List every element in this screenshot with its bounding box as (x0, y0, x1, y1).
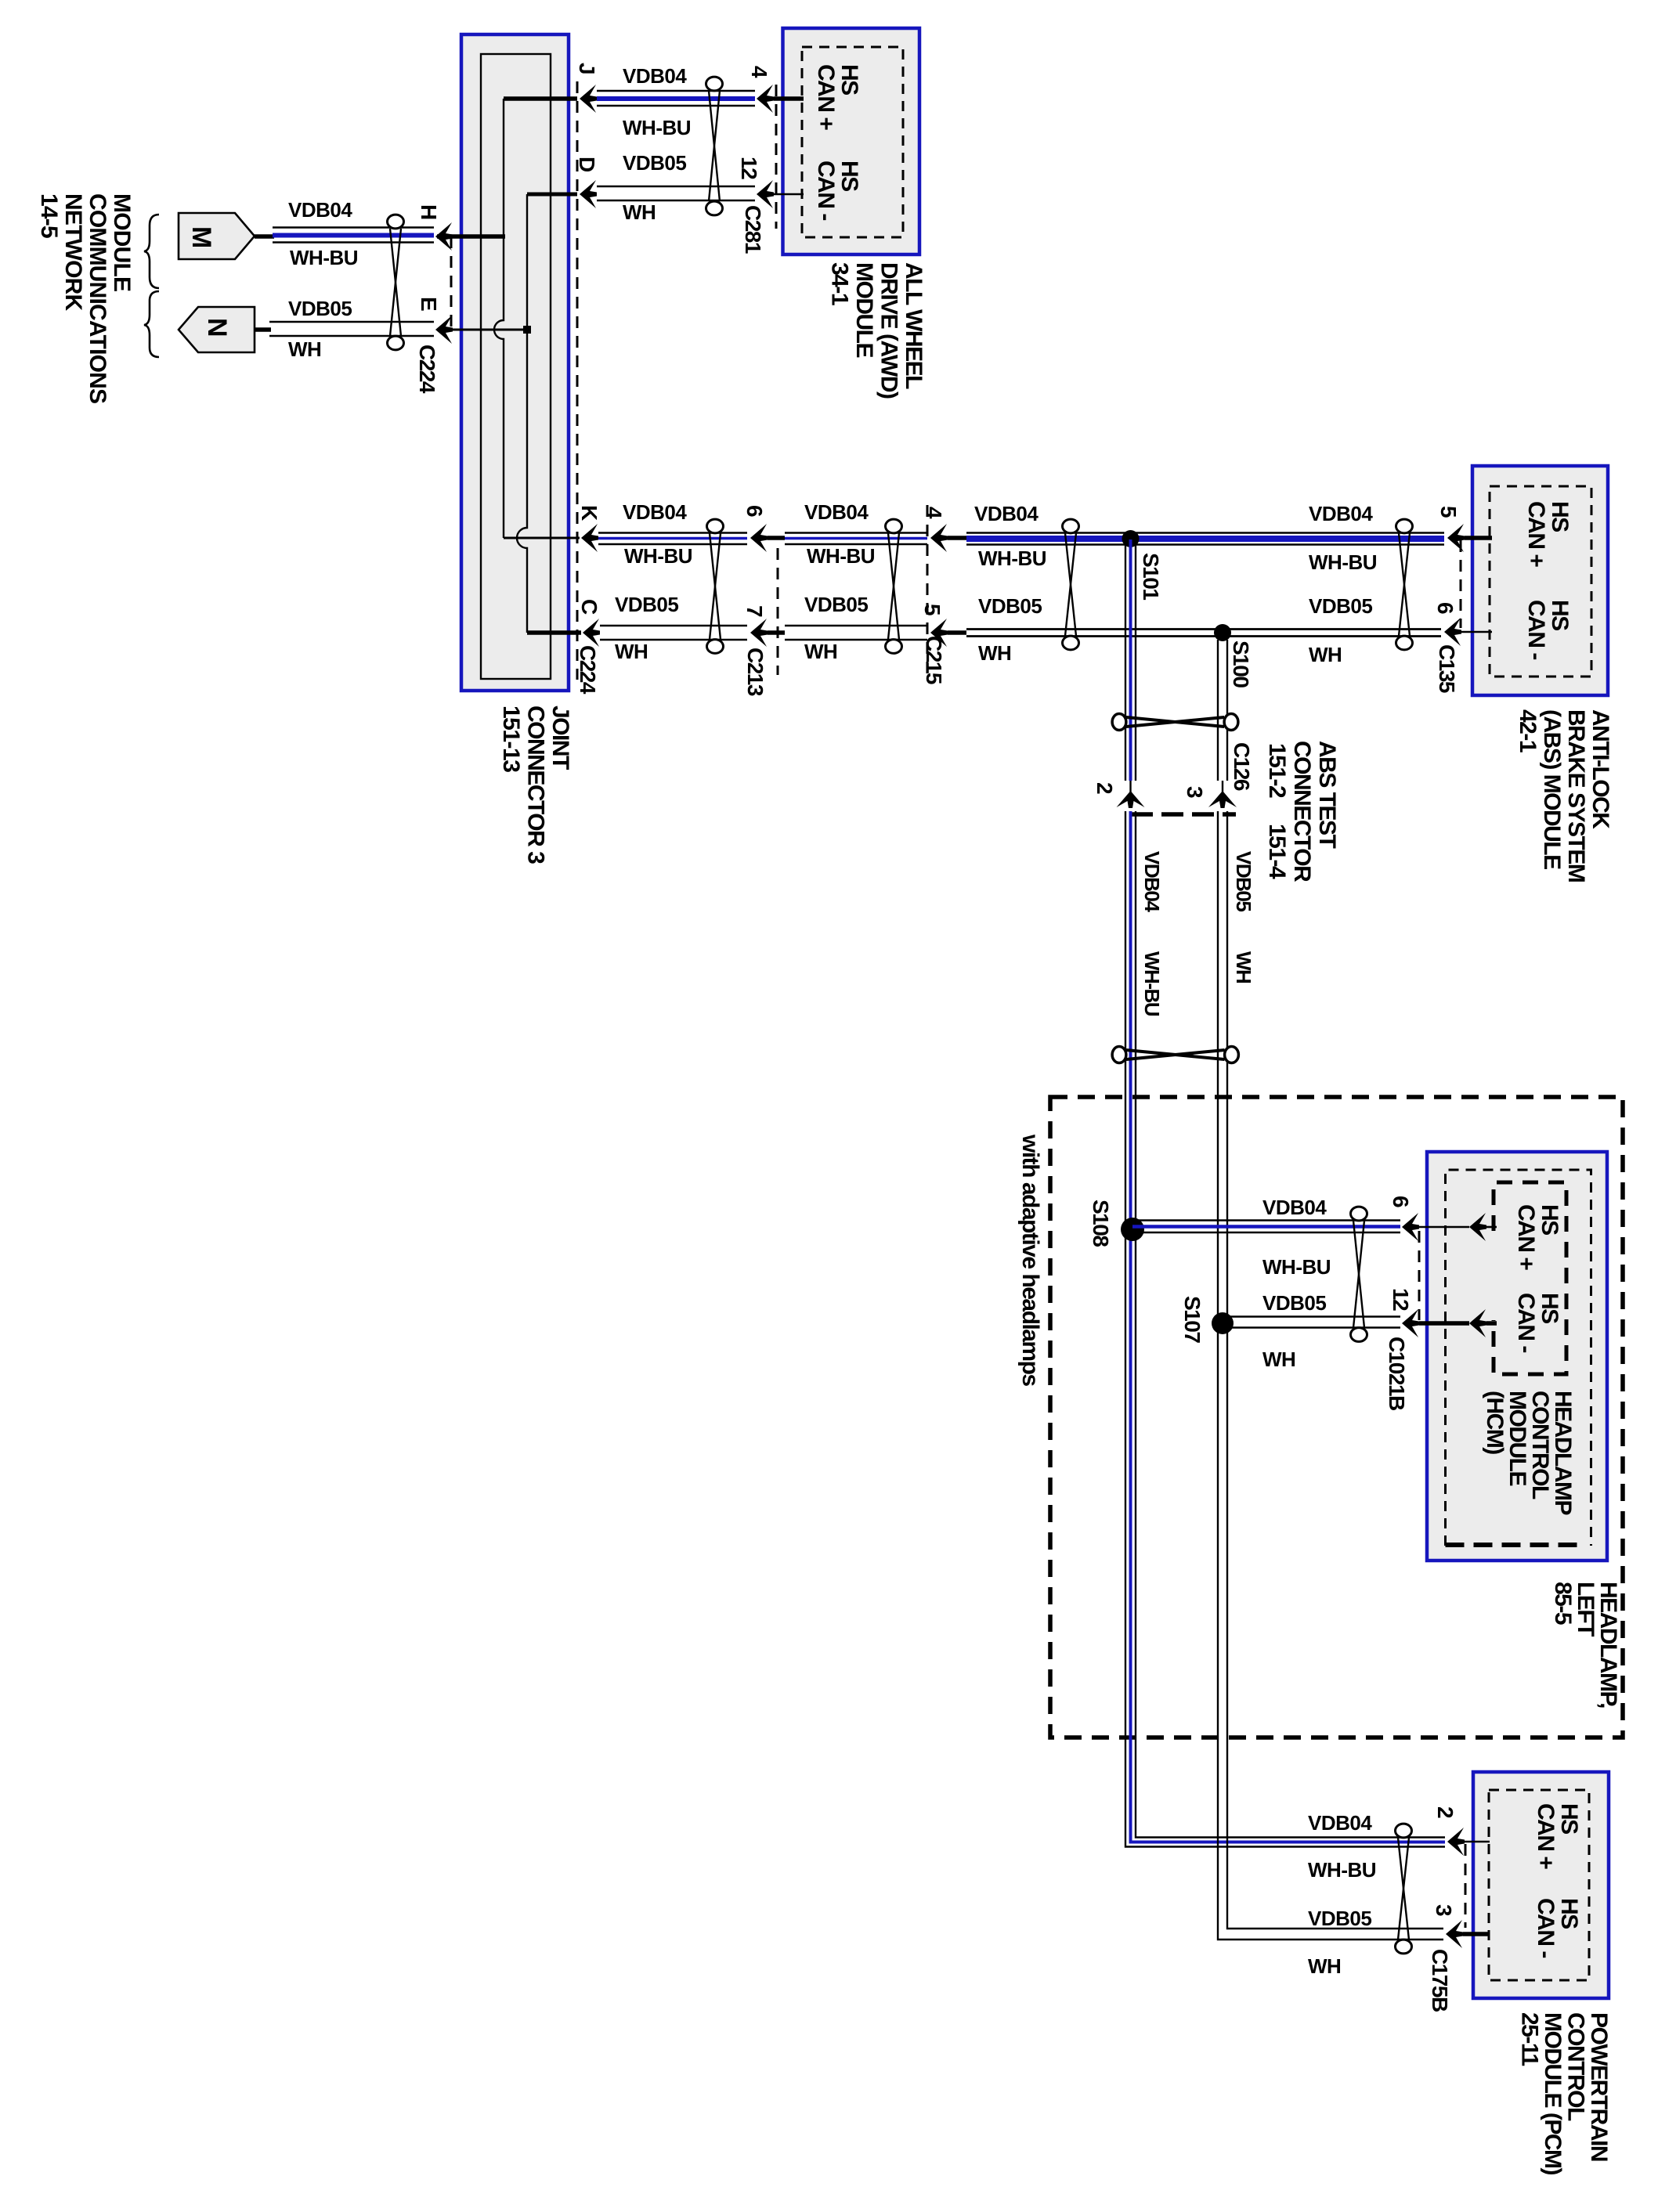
connector C213 boundary (777, 548, 779, 675)
svg-text:CONTROL: CONTROL (1563, 2012, 1589, 2121)
wire label VDB05 (HCM row) (1262, 1291, 1326, 1315)
label HS CAN + (AWD) (813, 64, 862, 130)
svg-text:S107: S107 (1180, 1296, 1205, 1343)
label HS CAN + (ABS) (1523, 501, 1573, 567)
wire VDB05 WH (C to C213) (600, 626, 747, 640)
svg-text:DRIVE (AWD): DRIVE (AWD) (876, 262, 902, 399)
wire VDB04 WH-BU (J to AWD pin4) (597, 91, 755, 106)
wire stub C1021B-12 to module (1419, 1321, 1469, 1326)
wire pin J stub (504, 96, 577, 101)
svg-text:H: H (417, 204, 441, 219)
svg-text:CAN +: CAN + (1523, 501, 1549, 567)
wire VDB05 vertical (S100 down, above C126) (1218, 640, 1227, 781)
wire VDB05 WH (D to AWD pin12) (597, 186, 755, 200)
svg-text:HS: HS (1537, 1204, 1562, 1235)
internal bus VDB05 (joint connector) (517, 194, 527, 633)
wire stub after C215 pin5 (948, 630, 966, 635)
module HEADLAMP CONTROL MODULE box (1427, 1152, 1607, 1561)
wire label VDB05 (D row) (623, 151, 686, 175)
svg-text:VDB05: VDB05 (1309, 594, 1372, 618)
svg-text:HS: HS (836, 64, 862, 95)
PCM module dashed outline (1489, 1790, 1589, 1980)
pin label 6 (C213) (742, 505, 767, 517)
wire stub into ABS pin5 (1465, 536, 1492, 540)
wire label WH-BU (span2) (807, 544, 875, 568)
wire VDB05 vertical (C126 down to PCM corner) (1218, 811, 1443, 1940)
svg-text:34-1: 34-1 (827, 262, 853, 305)
wire label VDB04 (PCM row) (1308, 1811, 1372, 1835)
wire M stub (255, 234, 274, 239)
svg-text:C224: C224 (576, 645, 600, 695)
HCM module dashed outline (1446, 1170, 1591, 1546)
wire label WH (C row) (615, 640, 648, 663)
wire label WH-BU (K row) (624, 544, 692, 568)
svg-text:3: 3 (1432, 1904, 1456, 1916)
label HEADLAMP, LEFT 85-5 (1550, 1582, 1621, 1708)
svg-text:C224: C224 (415, 345, 439, 394)
svg-text:VDB04: VDB04 (1308, 1811, 1372, 1835)
wire stub after C215 pin4 (948, 536, 966, 540)
label HS CAN + (PCM) (1533, 1803, 1582, 1869)
pin K arrow (581, 524, 598, 552)
wire label VDB04 (at ABS) (1309, 502, 1373, 525)
svg-text:BRAKE SYSTEM: BRAKE SYSTEM (1563, 709, 1589, 882)
svg-text:JOINT: JOINT (547, 705, 573, 770)
pin 3 arrow (C126) (1208, 781, 1237, 808)
wire label WH (PCM row) (1308, 1954, 1341, 1978)
connector label C175B (1428, 1949, 1452, 2012)
svg-text:WH: WH (288, 337, 321, 361)
wire label VDB04 (span3) (974, 502, 1039, 525)
wire label VDB05 (at ABS) (1309, 594, 1372, 618)
svg-text:CONNECTOR 3: CONNECTOR 3 (523, 705, 549, 864)
label ABS TEST CONNECTOR 151-2 151-4 (1264, 741, 1340, 882)
pin label 3 (C126) (1183, 786, 1207, 798)
wire pin H stub (437, 234, 505, 239)
wire N stub (255, 327, 271, 332)
svg-text:HS: HS (1547, 600, 1573, 630)
svg-text:6: 6 (1433, 602, 1458, 614)
connector N symbol (179, 307, 255, 352)
svg-text:WH-BU: WH-BU (1309, 550, 1377, 574)
module ANTI-LOCK BRAKE SYSTEM box (1472, 466, 1608, 695)
svg-text:S108: S108 (1089, 1200, 1113, 1247)
pin label K (577, 505, 601, 521)
pin label 12 (AWD) (737, 157, 761, 179)
svg-text:6: 6 (1389, 1196, 1413, 1207)
pin label C (577, 599, 601, 615)
module name ANTI-LOCK BRAKE SYSTEM (ABS) MODULE 42-1 (1515, 709, 1613, 882)
connector M label (186, 226, 216, 247)
wire pin K stub (504, 537, 580, 539)
splice label S101 (1139, 553, 1163, 600)
wire label WH-BU (vertical) (1140, 951, 1164, 1016)
twisted pair symbol (PCM rows) (1396, 1824, 1412, 1954)
svg-text:CAN +: CAN + (1533, 1803, 1559, 1869)
pin label 12 (HCM) (1389, 1288, 1413, 1311)
wire label WH-BU (at ABS) (1309, 550, 1377, 574)
splice S107 (1212, 1312, 1234, 1334)
module ALL WHEEL DRIVE (AWD) box (783, 28, 920, 254)
svg-text:CAN -: CAN - (1533, 1898, 1559, 1958)
splice label S107 (1180, 1296, 1205, 1343)
module arrow pin12 (HCM) (1469, 1309, 1486, 1337)
pin label J (575, 63, 599, 74)
internal bus VDB04 (joint connector) (494, 99, 504, 538)
wire label VDB04 (M row) (288, 198, 352, 222)
pin 5 arrow (C215) (930, 619, 948, 647)
svg-text:C: C (577, 599, 601, 615)
pin 6 arrow (C213) (750, 524, 768, 552)
wire stub into HCM pin12 (1486, 1321, 1497, 1326)
svg-text:VDB05: VDB05 (1232, 851, 1255, 911)
pin D arrow (580, 180, 597, 208)
module name HEADLAMP CONTROL MODULE (HCM) (1482, 1391, 1576, 1514)
svg-text:CONNECTOR: CONNECTOR (1289, 741, 1315, 882)
connector C224 boundary (left) (450, 236, 453, 332)
svg-text:(HCM): (HCM) (1482, 1391, 1508, 1454)
connector C281 boundary (775, 85, 778, 229)
wire label WH (vertical) (1232, 951, 1255, 983)
svg-text:VDB05: VDB05 (804, 593, 868, 616)
wire label WH-BU (HCM row) (1262, 1255, 1331, 1279)
svg-text:MODULE: MODULE (851, 262, 877, 357)
svg-text:COMMUNICATIONS: COMMUNICATIONS (85, 193, 110, 403)
svg-text:WH: WH (623, 200, 656, 224)
connector N label (202, 318, 232, 336)
connector label C281 (741, 205, 765, 254)
pin 2 arrow (C126) (1117, 781, 1145, 808)
svg-text:CAN +: CAN + (813, 64, 839, 130)
svg-text:WH: WH (1262, 1348, 1295, 1371)
wire VDB04 WH-BU (C215 to ABS) (966, 533, 1444, 545)
label HS CAN - (HCM) (1513, 1293, 1562, 1352)
wire label WH (HCM row) (1262, 1348, 1295, 1371)
wire stub into AWD pin4 (774, 96, 804, 101)
svg-text:C213: C213 (743, 648, 768, 696)
svg-text:M: M (186, 226, 216, 247)
wire label WH-BU (J row) (623, 116, 691, 139)
svg-text:VDB04: VDB04 (1140, 851, 1164, 912)
svg-text:VDB04: VDB04 (1262, 1196, 1327, 1219)
twisted pair symbol (at ABS) (1396, 519, 1413, 650)
pin label 4 (AWD) (747, 66, 771, 78)
svg-text:HS: HS (1547, 501, 1573, 532)
svg-text:WH-BU: WH-BU (623, 116, 691, 139)
svg-text:VDB05: VDB05 (1262, 1291, 1326, 1315)
label HS CAN - (PCM) (1533, 1898, 1582, 1958)
pin C arrow (583, 619, 600, 647)
wire VDB04 WH-BU (C213 to C215) (785, 533, 927, 545)
module POWERTRAIN CONTROL MODULE box (1473, 1772, 1609, 1998)
twisted pair symbol (span3) (1063, 519, 1079, 650)
svg-text:with adaptive headlamps: with adaptive headlamps (1017, 1134, 1043, 1386)
wire VDB04 vertical (S101 down, above C126) (1125, 539, 1136, 781)
svg-text:VDB04: VDB04 (804, 500, 869, 524)
node E junction (523, 326, 531, 334)
wire label WH-BU (span3) (978, 547, 1046, 570)
svg-text:WH: WH (804, 640, 837, 663)
pin label 5 (ABS) (1436, 506, 1461, 518)
wire label VDB05 (C row) (615, 593, 678, 616)
svg-text:WH: WH (1308, 1954, 1341, 1978)
twisted pair symbol (K/C rows) (707, 519, 724, 653)
wire label VDB05 (PCM row) (1308, 1907, 1371, 1930)
wire pin E stub (437, 329, 528, 331)
twisted pair symbol (HCM rows) (1351, 1207, 1367, 1341)
connector C175B boundary (1465, 1844, 1467, 1928)
svg-text:ABS TEST: ABS TEST (1314, 741, 1340, 849)
wire label VDB05 (N row) (288, 297, 352, 320)
wire label VDB04 (span2) (804, 500, 869, 524)
label with adaptive headlamps (1017, 1134, 1043, 1386)
wire stub after C213 pin7 (768, 630, 785, 635)
splice label S108 (1089, 1200, 1113, 1247)
wire VDB04 WH-BU (K to C213) (598, 533, 747, 545)
svg-text:25-11: 25-11 (1517, 2012, 1543, 2066)
joint connector 3 inner body (481, 54, 551, 679)
svg-text:VDB05: VDB05 (978, 594, 1042, 618)
network brace upper (144, 215, 159, 288)
wire label VDB04 (J row) (623, 64, 687, 88)
wire stub into PCM pin3 (1463, 1932, 1490, 1936)
wire VDB04 vertical (C126 down to PCM corner) (1125, 811, 1445, 1847)
svg-text:VDB05: VDB05 (623, 151, 686, 175)
pin label 5 (C215) (920, 604, 945, 615)
HCM connector dashed outline (1494, 1182, 1566, 1374)
wire label VDB04 (HCM row) (1262, 1196, 1327, 1219)
svg-text:VDB04: VDB04 (623, 500, 687, 524)
svg-text:(ABS) MODULE: (ABS) MODULE (1539, 709, 1565, 869)
wire label WH (span2) (804, 640, 837, 663)
svg-text:WH-BU: WH-BU (978, 547, 1046, 570)
label HS CAN + (HCM) (1513, 1204, 1562, 1270)
twisted pair symbol (J/D rows) (706, 77, 723, 215)
svg-text:85-5: 85-5 (1550, 1582, 1576, 1625)
connector label C126 (1230, 742, 1254, 791)
splice label S100 (1229, 641, 1253, 687)
svg-text:42-1: 42-1 (1515, 709, 1541, 752)
label MODULE COMMUNICATIONS NETWORK 14-5 (36, 193, 135, 403)
wire label VDB04 (K row) (623, 500, 687, 524)
wire pin C stub (527, 630, 581, 635)
pin 4 arrow (AWD) (757, 85, 774, 113)
wire VDB05 WH (C213 to C215) (785, 626, 927, 640)
wire VDB05 WH (N to E) (269, 322, 434, 336)
wire label WH (N row) (288, 337, 321, 361)
svg-text:HS: HS (1556, 1803, 1582, 1834)
svg-text:CAN -: CAN - (1513, 1293, 1539, 1352)
svg-text:MODULE (PCM): MODULE (PCM) (1540, 2012, 1566, 2174)
module name JOINT CONNECTOR 3 151-13 (498, 705, 573, 864)
wire VDB04 WH-BU (S108 to HCM) (1132, 1221, 1400, 1233)
svg-text:WH: WH (978, 641, 1011, 665)
svg-text:2: 2 (1093, 782, 1117, 794)
svg-text:14-5: 14-5 (36, 193, 62, 238)
splice S108 (1121, 1218, 1144, 1241)
wire label WH (D row) (623, 200, 656, 224)
wire stub into HCM pin6 (1486, 1226, 1497, 1229)
module name POWERTRAIN CONTROL MODULE (PCM) 25-11 (1517, 2012, 1613, 2174)
wire label WH-BU (M row) (290, 246, 358, 269)
svg-text:WH-BU: WH-BU (1140, 951, 1164, 1016)
svg-text:C175B: C175B (1428, 1949, 1452, 2012)
pin label 7 (C213) (742, 605, 767, 617)
pin label 2 (C126) (1093, 782, 1117, 794)
wire stub C1021B-6 to module (1419, 1226, 1469, 1229)
connector C1021B boundary (1418, 1231, 1421, 1320)
pin 2 arrow (PCM) (1447, 1828, 1465, 1856)
svg-text:5: 5 (920, 604, 945, 615)
twisted pair symbol (span2) (886, 519, 902, 653)
pin 7 arrow (C213) (750, 619, 768, 647)
svg-text:2: 2 (1433, 1806, 1458, 1818)
wire stub into PCM pin2 (1465, 1841, 1490, 1843)
wire stub after C213 pin6 (768, 536, 785, 540)
svg-text:WH: WH (615, 640, 648, 663)
svg-text:WH-BU: WH-BU (807, 544, 875, 568)
wire pin D stub (527, 193, 577, 197)
connector C135 boundary (1460, 540, 1462, 628)
svg-text:VDB05: VDB05 (1308, 1907, 1371, 1930)
svg-text:CAN -: CAN - (1523, 600, 1549, 659)
pin label 2 (PCM) (1433, 1806, 1458, 1818)
svg-text:WH-BU: WH-BU (624, 544, 692, 568)
svg-text:NETWORK: NETWORK (60, 193, 86, 312)
ABS module dashed outline (1490, 486, 1591, 677)
wire VDB05 WH (C215 to ABS) (966, 630, 1441, 637)
pin E arrow (435, 316, 453, 344)
svg-text:4: 4 (747, 66, 771, 78)
connector label C135 (1435, 644, 1459, 693)
svg-text:VDB04: VDB04 (288, 198, 352, 222)
svg-text:E: E (417, 297, 441, 311)
splice S101 (1122, 530, 1140, 547)
twisted pair symbol (M/N rows) (388, 215, 404, 350)
svg-text:S100: S100 (1229, 641, 1253, 687)
pin 3 arrow (PCM) (1446, 1920, 1463, 1948)
pin label H (417, 204, 441, 219)
svg-text:POWERTRAIN: POWERTRAIN (1586, 2012, 1612, 2161)
svg-text:ALL WHEEL: ALL WHEEL (901, 262, 927, 389)
connector label C213 (743, 648, 768, 696)
connector C126 boundary (1131, 812, 1236, 817)
wire label VDB05 (span2) (804, 593, 868, 616)
module arrow pin6 (HCM) (1469, 1213, 1486, 1241)
svg-text:3: 3 (1183, 786, 1207, 798)
wire label VDB04 (vertical) (1140, 851, 1164, 912)
svg-text:C281: C281 (741, 205, 765, 254)
pin label 6 (ABS) (1433, 602, 1458, 614)
label HS CAN - (ABS) (1523, 600, 1573, 659)
svg-text:C215: C215 (922, 636, 946, 684)
svg-text:WH: WH (1309, 643, 1342, 666)
wire stub into AWD pin12 (774, 193, 804, 196)
pin label 3 (PCM) (1432, 1904, 1456, 1916)
twisted pair symbol (vertical, above C126) (1112, 714, 1238, 731)
pin 6 arrow (C1021B) (1402, 1213, 1419, 1241)
svg-text:WH-BU: WH-BU (290, 246, 358, 269)
pin 4 arrow (C215) (930, 524, 948, 552)
label HS CAN - (AWD) (813, 161, 862, 220)
svg-text:12: 12 (1389, 1288, 1413, 1311)
connector C215 boundary (927, 505, 929, 678)
svg-text:HS: HS (836, 161, 862, 191)
svg-text:CAN +: CAN + (1513, 1204, 1539, 1270)
wire label WH-BU (PCM row) (1308, 1858, 1376, 1882)
pin label D (575, 157, 599, 172)
svg-text:HS: HS (1537, 1293, 1562, 1323)
pin 12 arrow (C1021B) (1402, 1309, 1419, 1337)
svg-text:151-2: 151-2 (1264, 743, 1290, 798)
svg-text:HS: HS (1556, 1898, 1582, 1929)
svg-text:VDB04: VDB04 (1309, 502, 1373, 525)
svg-text:VDB05: VDB05 (288, 297, 352, 320)
pin H arrow (435, 222, 453, 251)
svg-text:J: J (575, 63, 599, 74)
pin J arrow (580, 85, 597, 113)
AWD module dashed outline (802, 47, 903, 237)
svg-text:WH-BU: WH-BU (1308, 1858, 1376, 1882)
svg-text:4: 4 (922, 507, 946, 519)
svg-text:C1021B: C1021B (1385, 1337, 1409, 1410)
assembly HEADLAMP LEFT dashed box (1050, 1097, 1623, 1737)
svg-text:VDB05: VDB05 (615, 593, 678, 616)
svg-text:N: N (202, 318, 232, 336)
pin label E (417, 297, 441, 311)
wire label VDB05 (span3) (978, 594, 1042, 618)
svg-text:VDB04: VDB04 (974, 502, 1039, 525)
svg-text:S101: S101 (1139, 553, 1163, 600)
pin 6 arrow (ABS) (1444, 618, 1461, 646)
module JOINT CONNECTOR 3 outline box (461, 34, 569, 691)
wire label WH (at ABS) (1309, 643, 1342, 666)
pin 12 arrow (AWD) (757, 180, 774, 208)
svg-text:C135: C135 (1435, 644, 1459, 693)
svg-text:151-13: 151-13 (498, 705, 524, 772)
network brace lower (144, 291, 159, 357)
pin 5 arrow (ABS) (1447, 524, 1465, 552)
splice S100 (1214, 624, 1231, 641)
wire VDB04 WH-BU (M to H) (273, 228, 434, 243)
wire stub into ABS pin6 (1461, 631, 1492, 633)
connector M symbol (179, 213, 255, 259)
pin label 6 (HCM) (1389, 1196, 1413, 1207)
twisted pair symbol (vertical, lower) (1112, 1047, 1238, 1063)
wire label VDB05 (vertical) (1232, 851, 1255, 911)
svg-text:5: 5 (1436, 506, 1461, 518)
module name ALL WHEEL DRIVE (AWD) MODULE 34-1 (827, 262, 927, 399)
svg-text:7: 7 (742, 605, 767, 617)
svg-text:MODULE: MODULE (109, 193, 135, 291)
svg-text:K: K (577, 505, 601, 521)
svg-text:D: D (575, 157, 599, 172)
connector label C1021B (1385, 1337, 1409, 1410)
connector label C215 (922, 636, 946, 684)
svg-text:CAN -: CAN - (813, 161, 839, 220)
svg-text:ANTI-LOCK: ANTI-LOCK (1588, 709, 1613, 829)
connector C224 boundary (right) (576, 81, 579, 680)
svg-text:6: 6 (742, 505, 767, 517)
svg-text:151-4: 151-4 (1264, 824, 1290, 879)
connector label C224 (right) (576, 645, 600, 695)
svg-text:WH-BU: WH-BU (1262, 1255, 1331, 1279)
connector label C224 (left) (415, 345, 439, 394)
svg-text:12: 12 (737, 157, 761, 179)
wire label WH (span3) (978, 641, 1011, 665)
svg-text:C126: C126 (1230, 742, 1254, 791)
pin label 4 (C215) (922, 507, 946, 519)
